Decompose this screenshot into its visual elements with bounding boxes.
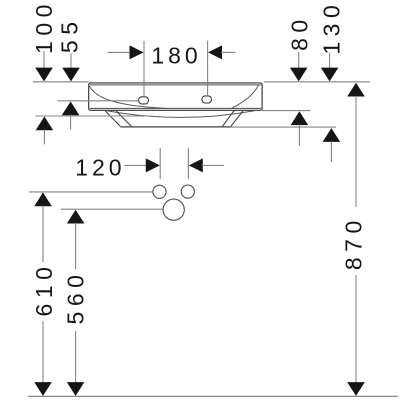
drain circle small right [181, 185, 194, 198]
reference line tap hole level [58, 100, 139, 102]
svg-text:80: 80 [287, 14, 313, 51]
dim 180 arrow left [130, 45, 144, 59]
svg-text:55: 55 [57, 17, 83, 54]
dim 55 top stem [70, 54, 72, 70]
tap hole left [139, 97, 149, 104]
svg-text:120: 120 [75, 155, 125, 181]
dim 870 lower stem [355, 275, 357, 383]
tap hole right [202, 96, 211, 103]
dim 610 lower stem [42, 321, 44, 383]
drain circle big [163, 199, 184, 220]
washbasin rim inner top line [90, 84, 261, 86]
dim 130 top stem [329, 53, 331, 69]
svg-text:130: 130 [319, 0, 345, 55]
dim 180 extension line left [143, 41, 145, 97]
dim 120 extension line right [187, 148, 189, 179]
bracket left diagonal outer [105, 111, 120, 126]
reference line bracket bottom right [231, 126, 336, 128]
bracket left diagonal inner [116, 111, 131, 126]
dim 120 extension line left [159, 148, 161, 179]
dim 870 bottom arrow [347, 382, 365, 396]
dim 80 bottom stem [298, 124, 300, 145]
dim 870 top arrow [347, 83, 365, 97]
basin underside arc [105, 110, 257, 117]
dim 100 top arrow [35, 68, 53, 82]
dim 80 top arrow [290, 68, 308, 82]
dim 130 bottom arrow [323, 128, 341, 142]
leader line small drain circle [29, 191, 153, 193]
svg-text:180: 180 [151, 42, 201, 68]
dim 55 bottom stem [70, 115, 72, 130]
dim 80 bottom arrow [291, 111, 309, 125]
dim 610 bottom arrow [34, 382, 52, 396]
dim 100 bottom stem [43, 130, 45, 145]
drain circle small left [153, 185, 166, 198]
dim 120 tail left [125, 164, 148, 166]
basin interior left curve [89, 86, 165, 109]
dim 560 bottom arrow [67, 382, 85, 396]
washbasin rim inner bottom line [90, 107, 261, 109]
dim 560 upper stem [75, 223, 77, 270]
dim 610 upper stem [42, 206, 44, 263]
dim 130 top arrow [321, 68, 339, 82]
dim 870 upper stem [355, 96, 357, 207]
bracket bottom line [120, 126, 230, 128]
bracket right diagonal inner [222, 111, 234, 127]
dim 120 arrow left [146, 158, 160, 172]
reference line rim bottom right [262, 110, 311, 112]
reference line rim level right [264, 81, 370, 83]
dim 120 tail right [202, 164, 224, 166]
leader line big drain circle [61, 208, 163, 210]
bracket right diagonal outer [231, 111, 243, 127]
svg-text:870: 870 [340, 215, 366, 270]
dim 100 bottom arrow [36, 117, 54, 131]
dim 610 top arrow [34, 192, 52, 206]
dim 120 arrow right [189, 158, 203, 172]
dim 180 tail right [221, 51, 235, 53]
dim 560 top arrow [67, 210, 85, 224]
basin interior right curve [232, 85, 259, 108]
dim 180 arrow right [208, 45, 222, 59]
dim 80 top stem [298, 52, 300, 69]
floor line [28, 395, 398, 397]
dim 180 tail left [107, 51, 130, 53]
svg-text:610: 610 [31, 262, 57, 317]
reference line basin underside level [35, 115, 151, 117]
reference line rim level left [33, 81, 89, 83]
dim 180 extension line right [207, 41, 209, 96]
dim 560 lower stem [75, 331, 77, 383]
dim 130 bottom stem [330, 141, 332, 162]
dim 100 top stem [43, 51, 45, 69]
dim 55 bottom arrow [62, 102, 80, 116]
dim 55 top arrow [62, 68, 80, 82]
svg-text:560: 560 [63, 270, 89, 325]
washbasin rim outline [89, 83, 262, 110]
svg-text:100: 100 [31, 0, 57, 54]
